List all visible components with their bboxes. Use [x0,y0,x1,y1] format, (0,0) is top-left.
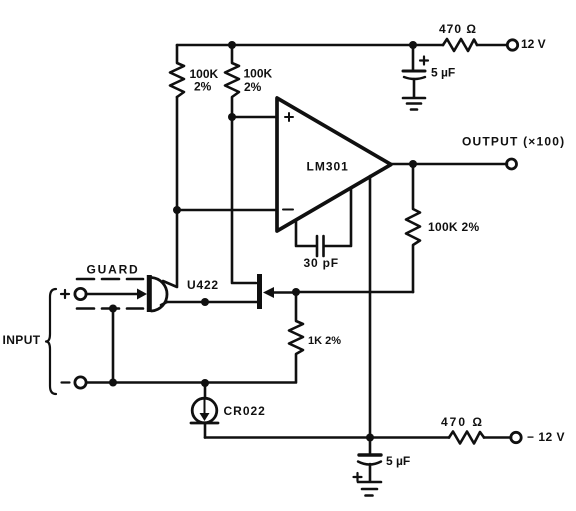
terminal +12V [507,40,517,50]
wire guard dashed (top) [77,278,143,281]
resistor R5 1K 2% [87,292,304,383]
terminal input plus [75,288,86,299]
svg-text:470 Ω: 470 Ω [441,415,484,429]
wire bottom supply rail [205,436,511,439]
node junction CR022 top [201,379,209,387]
svg-text:12 V: 12 V [521,37,546,51]
ground (bottom) [358,482,381,496]
current source CR022 [192,398,217,423]
svg-text:− 12 V: − 12 V [527,430,565,444]
transistor Q1 gate wire from + input [86,293,138,296]
polarity plus (C1) [420,57,428,65]
current source arrow shaft [204,399,206,415]
wire to op-amp non-inverting input [232,116,277,119]
node junction top rail / R2 [228,41,236,49]
node junction guard tie [109,305,117,313]
transistor Q1 source link [161,302,167,305]
svg-text:LM301: LM301 [307,160,349,174]
svg-text:OUTPUT (×100): OUTPUT (×100) [462,135,565,149]
wire CR022 bottom lead to rail [204,423,207,438]
node junction top rail / C1 [409,41,417,49]
transistor Q1 (U422 half, left) channel bar [147,275,152,312]
op-amp U1 LM301 [277,98,391,231]
transistor Q2 (U422 half, right) channel bar [257,274,262,309]
terminal output [507,159,517,169]
resistor R6 470 ohm (bottom) [449,432,484,444]
transistor Q1 gate arrowhead [137,289,147,300]
op-amp minus input mark [283,209,293,211]
resistor R3 470 ohm (top) [443,39,477,51]
capacitor C3 plates [317,236,324,256]
svg-text:100K: 100K [244,67,273,81]
wire R2 bottom down to Q2 drain [232,117,256,283]
capacitor C2 5uF (bottom) [369,438,372,454]
ground (top) [403,98,425,110]
node junction common sources [201,298,209,306]
svg-text:1K 2%: 1K 2% [308,335,341,347]
capacitor C1 5uF (top) [412,45,415,70]
current source cathode bar [191,422,218,425]
svg-text:470 Ω: 470 Ω [439,22,477,36]
svg-text:2%: 2% [244,80,262,94]
polarity plus (C2) [354,473,362,481]
input brace [46,289,56,394]
current source arrowhead [200,413,210,421]
svg-text:5 µF: 5 µF [431,66,455,80]
capacitor C3 30 pF bracket [296,188,351,246]
resistor R4 100K 2% (feedback) [406,164,420,292]
resistor R1 100K 2% [170,45,184,97]
node junction inverting input [173,206,181,214]
transistor Q2 gate wire [274,291,296,294]
node junction output [409,160,417,168]
wire to op-amp inverting input [177,209,277,212]
svg-text:100K 2%: 100K 2% [428,220,479,234]
wire left column (R1 bottom to Q1 drain) [163,97,177,287]
wire CR022 top lead [204,383,207,399]
op-amp plus input mark [285,113,293,121]
polarity plus (input) [61,290,69,298]
svg-text:U422: U422 [187,278,219,292]
wire op-amp V- pin down to bottom rail [369,176,372,438]
node junction Q2 gate / 1K / feedback [292,288,300,296]
svg-text:CR022: CR022 [224,404,266,418]
svg-text:30 pF: 30 pF [304,256,339,270]
wire output [391,163,507,166]
wire guard dashed (bottom) [77,307,143,310]
polarity minus (input) [62,381,70,383]
transistor Q1 body arc [152,278,168,312]
svg-text:GUARD: GUARD [87,263,140,277]
node junction bottom rail / C2 [366,434,374,442]
wire feedback to Q2 gate [296,291,413,294]
wire common source line [167,301,257,304]
svg-text:INPUT: INPUT [3,333,41,347]
node junction non-inverting input [228,113,236,121]
node junction guard / minus line [109,379,117,387]
transistor Q2 gate arrowhead [263,287,274,298]
svg-text:5 µF: 5 µF [386,454,410,468]
svg-text:2%: 2% [194,80,212,94]
wire top supply rail [177,44,507,47]
resistor R2 100K 2% [225,45,239,117]
terminal -12V [511,432,521,442]
wire guard to minus input [112,309,115,383]
terminal input minus [75,377,86,388]
